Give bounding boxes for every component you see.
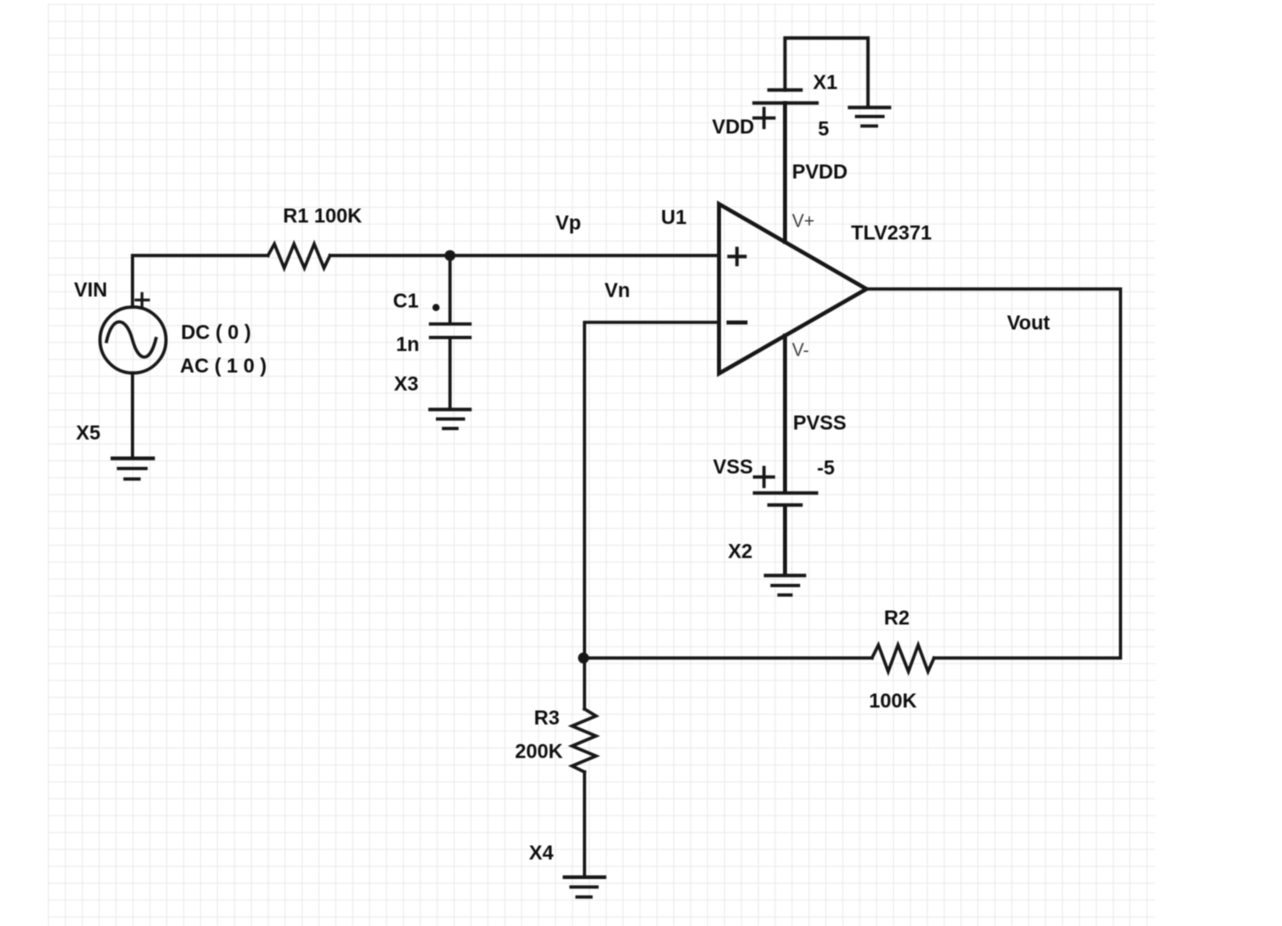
op-amp plus input symbol bbox=[729, 249, 745, 265]
svg-text:VDD: VDD bbox=[712, 117, 754, 139]
svg-text:100K: 100K bbox=[869, 691, 917, 713]
op-amp U1 triangle bbox=[719, 204, 867, 374]
op-amp minus input symbol bbox=[729, 321, 746, 325]
VSS plus sign bbox=[755, 468, 774, 487]
svg-text:U1: U1 bbox=[661, 207, 687, 229]
svg-text:V+: V+ bbox=[792, 211, 815, 231]
svg-text:PVDD: PVDD bbox=[792, 162, 848, 184]
resistor R3 bbox=[572, 709, 596, 772]
ground X5 bbox=[113, 456, 154, 460]
wire R3 to ground bbox=[583, 772, 586, 876]
wire R2 to junction bbox=[585, 656, 873, 659]
C1 polarity dot bbox=[432, 304, 439, 311]
ground at X1 bbox=[850, 106, 890, 109]
svg-text:X3: X3 bbox=[394, 374, 418, 396]
svg-text:VIN: VIN bbox=[74, 280, 107, 302]
resistor R1 bbox=[268, 244, 330, 268]
svg-text:Vp: Vp bbox=[556, 213, 582, 235]
wire V+ pin to battery X1 bbox=[783, 103, 787, 242]
ground X4 bbox=[565, 875, 605, 879]
svg-text:1n: 1n bbox=[396, 334, 419, 356]
svg-text:C1: C1 bbox=[393, 291, 419, 313]
wire Vn net bbox=[585, 322, 718, 653]
VIN sine wave bbox=[107, 322, 157, 357]
battery X2 plates bbox=[755, 491, 817, 494]
resistor R2 bbox=[872, 645, 934, 672]
ground X3 bbox=[430, 408, 470, 411]
svg-text:X2: X2 bbox=[728, 541, 752, 563]
svg-text:AC ( 1 0 ): AC ( 1 0 ) bbox=[180, 356, 267, 378]
svg-text:V-: V- bbox=[792, 340, 809, 360]
VDD plus sign bbox=[754, 109, 774, 128]
wire V- pin to battery X2 bbox=[783, 336, 787, 492]
wire C1 upper bbox=[448, 256, 451, 323]
svg-text:X1: X1 bbox=[813, 72, 837, 94]
svg-text:R1 100K: R1 100K bbox=[283, 206, 362, 228]
svg-text:5: 5 bbox=[818, 119, 829, 141]
svg-text:DC ( 0 ): DC ( 0 ) bbox=[181, 322, 251, 344]
wire X2 to ground bbox=[783, 507, 787, 574]
VIN plus sign bbox=[136, 294, 149, 307]
wire VIN bottom to ground bbox=[131, 373, 134, 457]
svg-text:200K: 200K bbox=[515, 741, 563, 763]
svg-text:TLV2371: TLV2371 bbox=[851, 223, 932, 245]
node Vn junction dot bbox=[578, 653, 589, 664]
wire junction to R3 bbox=[583, 658, 586, 709]
wire Vout net bbox=[867, 289, 1121, 658]
svg-text:PVSS: PVSS bbox=[793, 413, 846, 435]
svg-text:R3: R3 bbox=[534, 708, 560, 730]
svg-text:-5: -5 bbox=[817, 458, 835, 480]
wire VIN top to Vp net bbox=[133, 256, 269, 308]
svg-text:X5: X5 bbox=[76, 423, 100, 445]
ground at X2 bbox=[766, 574, 805, 577]
svg-text:X4: X4 bbox=[529, 843, 554, 865]
capacitor C1 bbox=[431, 324, 471, 338]
svg-text:Vout: Vout bbox=[1007, 313, 1050, 335]
battery X1 plates bbox=[769, 88, 801, 91]
voltage source VIN circle bbox=[100, 307, 166, 373]
node Vp junction dot bbox=[445, 250, 456, 261]
svg-text:VSS: VSS bbox=[713, 457, 753, 479]
svg-text:R2: R2 bbox=[884, 608, 910, 630]
wire battery X1 loop bbox=[785, 38, 868, 106]
wire C1 lower bbox=[448, 339, 451, 408]
svg-text:Vn: Vn bbox=[605, 280, 631, 302]
wire R1 to op-amp + input bbox=[330, 254, 717, 257]
